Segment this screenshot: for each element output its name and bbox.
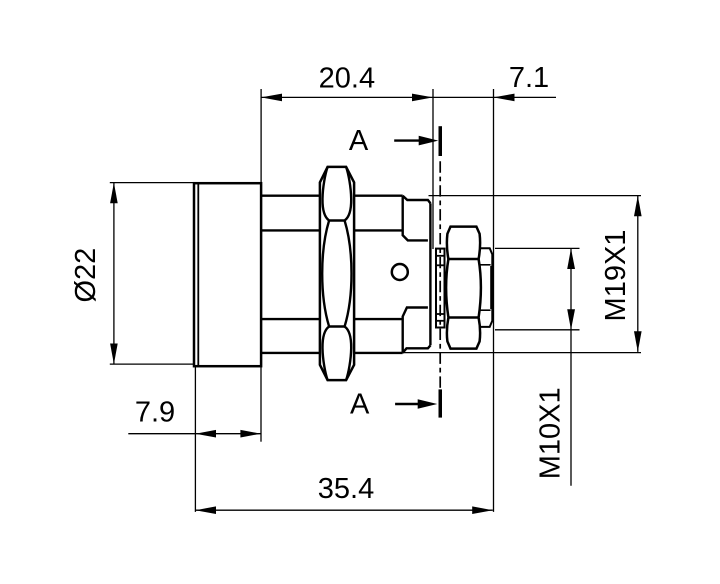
hex nut top lens [322, 167, 351, 221]
arrow right 20.4 [412, 94, 433, 102]
extension line x433 [432, 89, 434, 249]
section arrow bottom [395, 403, 420, 405]
threaded tip [480, 248, 492, 327]
svg-text:Ø22: Ø22 [70, 248, 102, 303]
35.4 dimension line [195, 509, 492, 511]
step block bottom [403, 308, 431, 353]
small hex nut [446, 227, 481, 349]
svg-text:35.4: 35.4 [318, 473, 374, 505]
svg-text:M19X1: M19X1 [600, 230, 632, 322]
extension line x493.5 [493, 89, 495, 512]
section arrow top [394, 139, 420, 141]
barrel inner bottom [261, 318, 320, 320]
barrel inner top [261, 229, 320, 231]
centerline A-A dash-dot [439, 161, 441, 389]
extension line x261 [260, 89, 262, 183]
7.9 dimension line [128, 433, 261, 435]
hex nut bottom lens [322, 327, 351, 381]
block right edge line [429, 203, 431, 345]
svg-text:M10X1: M10X1 [535, 387, 567, 479]
barrel outer top [261, 194, 320, 196]
body cap rectangle [194, 183, 261, 366]
svg-text:20.4: 20.4 [319, 62, 375, 94]
svg-text:7.9: 7.9 [135, 396, 175, 428]
section bar bottom [439, 389, 443, 417]
dia22 dimension line [113, 183, 115, 365]
M10X1 extension lines [495, 247, 580, 249]
indicator circle [392, 264, 408, 280]
svg-text:A: A [350, 389, 370, 421]
svg-text:7.1: 7.1 [509, 62, 549, 94]
hex nut outline [320, 167, 354, 380]
M10X1 dimension line [570, 248, 572, 485]
hex nut middle lens [322, 221, 351, 327]
washer plate [436, 249, 445, 328]
section bar top [439, 126, 443, 156]
arrow left 7.1 [494, 94, 515, 102]
left extension line bottom [194, 366, 196, 512]
svg-text:A: A [349, 125, 369, 157]
M19X1 extension lines [429, 195, 642, 197]
top dimension line [261, 96, 556, 98]
step block top [403, 196, 431, 241]
dia22 extension lines [110, 182, 194, 184]
cap inner edge line [197, 183, 199, 366]
M19X1 dimension line [637, 196, 639, 352]
arrow left 20.4 [261, 94, 282, 102]
barrel outer bottom [261, 352, 320, 354]
